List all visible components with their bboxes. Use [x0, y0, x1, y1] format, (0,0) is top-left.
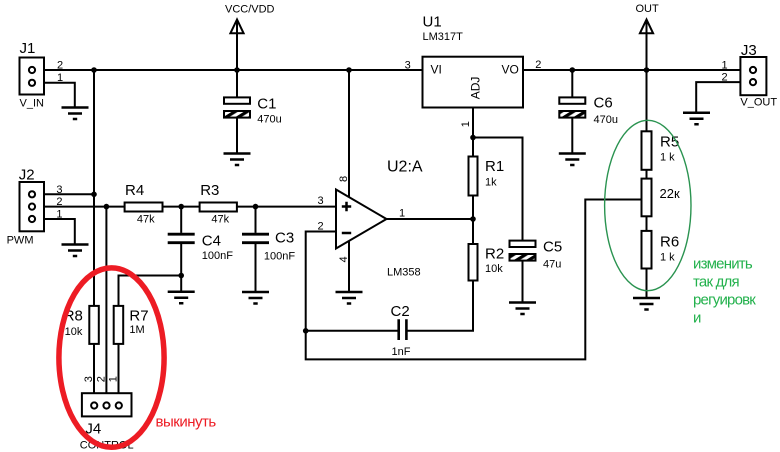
connector J1 V_IN	[20, 58, 45, 95]
ground (J3 pin2)	[683, 113, 710, 125]
wire: top rail from J1 pin2 to U1 VI	[35, 69, 423, 71]
ground (C6)	[559, 154, 586, 166]
svg-text:47u: 47u	[543, 259, 561, 271]
svg-text:VO: VO	[502, 63, 519, 77]
svg-text:VI: VI	[431, 63, 442, 77]
wire: R4 to R3	[163, 206, 200, 208]
svg-text:R2: R2	[485, 246, 504, 263]
wire: J2 pin3	[35, 193, 94, 195]
wire: R6 to ground	[646, 269, 648, 299]
wire: C6 to ground	[571, 118, 573, 154]
svg-text:V_IN: V_IN	[20, 98, 45, 110]
svg-text:R1: R1	[485, 158, 504, 175]
node: junction J2 pin2	[104, 204, 110, 210]
svg-text:100nF: 100nF	[202, 250, 233, 262]
resistor R6 1k	[642, 231, 652, 269]
wire: R2 bottom to C2 right	[407, 281, 473, 331]
resistor R1 1k	[469, 157, 478, 196]
wire: op-amp pin4 to ground	[348, 241, 350, 292]
svg-text:3: 3	[83, 376, 95, 382]
capacitor C2 1nF	[306, 330, 399, 332]
node: junction ADJ node	[470, 135, 476, 141]
resistor R8 10k	[89, 306, 99, 344]
svg-text:47k: 47k	[211, 214, 229, 226]
svg-text:LM317T: LM317T	[423, 31, 464, 43]
node: junction OUT rail	[644, 67, 650, 73]
svg-text:C6: C6	[594, 95, 613, 112]
svg-text:47k: 47k	[137, 214, 155, 226]
svg-text:1: 1	[57, 72, 63, 84]
svg-text:470u: 470u	[257, 114, 281, 126]
wire: OUT node down to R5	[646, 70, 648, 131]
svg-text:C4: C4	[202, 233, 221, 250]
capacitor C5 47u	[510, 241, 536, 247]
annotation: green ellipse	[605, 120, 691, 290]
wire: R5 to potentiometer	[646, 170, 648, 179]
ground (R6)	[633, 298, 660, 310]
ground (C1)	[224, 154, 251, 166]
wire: R1 to output node to R2	[472, 196, 474, 245]
regulator U1 LM317T	[423, 57, 524, 108]
svg-text:1: 1	[399, 208, 405, 220]
ground (J2 pin1)	[62, 245, 89, 257]
capacitor C6 470u	[571, 70, 573, 97]
node: junction J2 pin3	[91, 192, 97, 198]
resistor R2 10k	[469, 244, 478, 281]
wire: R3 to op-amp pin3	[237, 206, 336, 208]
svg-text:1M: 1M	[129, 324, 144, 336]
svg-text:ADJ: ADJ	[468, 77, 482, 100]
node: junction R3/C3/op-amp	[253, 204, 259, 210]
svg-text:U2:A: U2:A	[387, 159, 423, 176]
op-amp U2:A LM358	[336, 190, 387, 249]
svg-text:VCC/VDD: VCC/VDD	[225, 4, 275, 16]
wire: R7 top to C4 node	[119, 276, 182, 306]
svg-text:1k: 1k	[485, 177, 497, 189]
wire: rail to C1	[236, 70, 238, 97]
svg-text:V_OUT: V_OUT	[740, 97, 777, 109]
svg-text:1: 1	[460, 121, 472, 127]
annotation: red ellipse	[59, 268, 164, 447]
svg-text:C1: C1	[257, 96, 276, 113]
capacitor C4 100nF	[180, 207, 182, 233]
ground (J1 pin1)	[62, 108, 89, 120]
node: junction J1/J2 rail	[91, 67, 97, 73]
svg-text:2: 2	[722, 72, 728, 84]
svg-text:1 k: 1 k	[660, 252, 675, 264]
node: junction output node	[470, 216, 476, 222]
wire: vertical net J1 node down to R8	[93, 70, 95, 306]
wire: right rail U1 VO to J3	[523, 69, 750, 71]
wire: C1 to ground	[236, 118, 238, 154]
wire: J2 pin2 node down to J4 pin2	[105, 207, 107, 403]
svg-text:2: 2	[95, 376, 107, 382]
svg-text:1nF: 1nF	[392, 346, 411, 358]
svg-text:22к: 22к	[660, 186, 680, 201]
wire: pot to R6	[646, 216, 648, 231]
capacitor C1 470u	[224, 97, 250, 103]
svg-text:J3: J3	[741, 42, 757, 59]
svg-text:R7: R7	[129, 308, 148, 325]
svg-text:100nF: 100nF	[264, 250, 295, 262]
svg-text:R6: R6	[660, 234, 679, 251]
node: junction R4/R3/C4	[178, 204, 184, 210]
svg-text:2: 2	[56, 196, 62, 208]
power OUT arrow	[640, 20, 653, 34]
connector J4 CONTROL	[82, 393, 132, 416]
svg-text:2: 2	[57, 60, 63, 72]
wire: op-amp pin2 feedback down	[306, 200, 641, 360]
resistor R4 47k	[125, 203, 163, 212]
svg-text:так для: так для	[693, 274, 739, 291]
svg-text:R4: R4	[125, 182, 144, 199]
potentiometer 22k body	[642, 179, 652, 217]
ground (C5)	[509, 303, 536, 315]
svg-text:OUT: OUT	[636, 3, 660, 15]
wire: J1 pin1 to ground	[35, 83, 75, 108]
svg-text:3: 3	[405, 59, 411, 71]
wire: J2 pin1 to ground	[35, 219, 75, 245]
wire: R7 to J4 pin1	[118, 344, 120, 403]
wire: op-amp output to R1/R2	[387, 218, 474, 220]
wire: U1 ADJ pin down	[472, 108, 474, 157]
wire: J3 pin2 to ground	[696, 82, 750, 113]
resistor R5 1k	[642, 131, 652, 170]
svg-text:470u: 470u	[594, 114, 618, 126]
wire: R8 to J4 pin3	[93, 344, 95, 403]
node: junction C4/R7 wire	[178, 273, 184, 279]
svg-text:выкинуть: выкинуть	[156, 414, 217, 431]
node: junction pin8 rail	[346, 67, 352, 73]
svg-text:R3: R3	[200, 182, 219, 199]
node: junction C2 tap	[303, 328, 309, 334]
svg-text:PWM: PWM	[7, 235, 34, 247]
svg-text:J1: J1	[20, 40, 36, 57]
svg-text:10k: 10k	[65, 326, 83, 338]
svg-text:изменить: изменить	[693, 256, 753, 273]
connector J2 PWM	[20, 182, 45, 231]
node: junction VCC rail	[234, 67, 240, 73]
ground (op-amp pin4)	[336, 292, 363, 304]
svg-text:3: 3	[56, 184, 62, 196]
wire: J2 pin2 to R4	[35, 206, 125, 208]
svg-text:1: 1	[722, 60, 728, 72]
power VCC/VDD arrow	[230, 20, 243, 34]
ground (C3)	[242, 292, 269, 304]
svg-text:C3: C3	[275, 230, 294, 247]
ground (C4)	[168, 292, 195, 304]
svg-text:C5: C5	[543, 239, 562, 256]
svg-text:1: 1	[108, 376, 120, 382]
svg-text:C2: C2	[391, 303, 410, 320]
node: junction C6 rail	[570, 67, 576, 73]
svg-text:10k: 10k	[485, 263, 503, 275]
svg-text:U1: U1	[423, 14, 442, 31]
svg-text:LM358: LM358	[387, 266, 421, 278]
wire: op-amp pin8 to rail	[348, 70, 350, 197]
wire: C5 to ground	[522, 261, 524, 303]
svg-text:и: и	[693, 310, 701, 327]
svg-text:J2: J2	[19, 167, 35, 184]
svg-text:1: 1	[56, 209, 62, 221]
svg-text:3: 3	[318, 195, 324, 207]
capacitor C3 100nF	[255, 207, 257, 233]
resistor R3 47k	[200, 203, 237, 212]
svg-text:1 k: 1 k	[660, 152, 675, 164]
svg-text:регуировк: регуировк	[693, 292, 756, 309]
wire: ADJ node to C5	[473, 138, 523, 241]
